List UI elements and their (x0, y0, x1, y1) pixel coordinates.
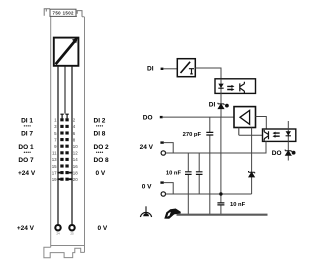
module mounting clip left (44, 9, 50, 16)
opto1 phototransistor (240, 82, 245, 93)
wire driver to opto2 (256, 117, 267, 130)
svg-text:DI 1: DI 1 (21, 117, 33, 124)
svg-text:19: 19 (52, 177, 57, 182)
svg-text:270 pF: 270 pF (183, 132, 202, 138)
0V bus square terminal (160, 181, 163, 183)
10 nF cap line 1 (187, 153, 189, 215)
24V bus square terminal (160, 141, 163, 143)
svg-text:DI 2: DI 2 (94, 117, 106, 124)
opto1 LED line through (220, 79, 222, 94)
opto1 light arrows (227, 86, 232, 89)
270 pF capacitor plates (206, 132, 213, 135)
header feed T right (65, 114, 68, 118)
filter box (debounce) (177, 59, 195, 77)
filter tau symbol (189, 69, 194, 74)
svg-text:0 V: 0 V (98, 225, 108, 232)
wire leg to opto2 base (239, 134, 263, 136)
svg-text:25: 25 (70, 232, 74, 236)
left terminal labels (18, 117, 36, 177)
pin header contacts (2 x 10) (60, 118, 68, 181)
pin numbers even (73, 118, 78, 182)
right terminal labels (94, 117, 110, 177)
wire right rail from converter (71, 66, 73, 225)
filter slash (181, 62, 191, 73)
svg-text:15: 15 (52, 164, 57, 169)
10 nF cap line 2 (198, 153, 200, 194)
wire mid from converter (64, 66, 66, 113)
24V square wire (164, 143, 173, 153)
svg-text:DO 8: DO 8 (94, 157, 110, 164)
wire left rail from converter (57, 66, 59, 225)
svg-text:24 V: 24 V (140, 144, 154, 151)
svg-text:20: 20 (73, 177, 78, 182)
24V rail (166, 141, 267, 153)
power jumper contact icon (164, 209, 180, 219)
header feed T left (60, 114, 63, 118)
DO status LED diode (285, 150, 291, 156)
driver left leg (238, 128, 240, 136)
svg-text:12: 12 (73, 151, 78, 156)
FE bus bar (177, 214, 268, 216)
module label plate (50, 9, 76, 16)
DC/DC converter box U1 (54, 38, 79, 66)
module mounting clip right (77, 11, 82, 17)
svg-text:10 nF: 10 nF (166, 170, 182, 176)
svg-text:10: 10 (73, 144, 78, 149)
pin numbers odd (52, 118, 57, 182)
pin 17/18 rail stubs (57, 172, 72, 174)
svg-text:DI 8: DI 8 (94, 131, 106, 138)
0V square wire (164, 183, 173, 194)
DI terminal square (161, 68, 164, 70)
svg-text:+24 V: +24 V (17, 225, 35, 232)
driver box U3 (234, 107, 256, 128)
terminal ring left (55, 225, 60, 230)
dots under DO 2 (96, 152, 103, 153)
terminal ring right (69, 225, 74, 230)
DC/DC isolation diagonal (56, 39, 77, 64)
svg-text:DI: DI (209, 102, 216, 109)
svg-text:DO 1: DO 1 (18, 144, 34, 151)
svg-text:DO 2: DO 2 (94, 144, 110, 151)
DO terminal square (160, 116, 163, 118)
svg-text:DO 7: DO 7 (18, 157, 34, 164)
driver triangle (240, 110, 250, 124)
wire DI to filter (163, 68, 177, 70)
svg-text:DO: DO (143, 114, 153, 121)
svg-text:0 V: 0 V (142, 184, 152, 191)
wire filter to opto1 (195, 68, 221, 79)
dots under DO 1 (24, 152, 31, 153)
dots under DI 2 (96, 125, 103, 126)
svg-text:10 nF: 10 nF (230, 202, 246, 208)
svg-text:+24 V: +24 V (18, 170, 36, 177)
pin 19/20 rail stubs (57, 178, 72, 180)
svg-text:16: 16 (73, 164, 78, 169)
module foot (44, 246, 85, 258)
opto2 LED line with stub above (287, 121, 289, 161)
svg-text:11: 11 (52, 151, 57, 156)
main tap line to FE (220, 117, 222, 215)
svg-text:0 V: 0 V (96, 170, 106, 177)
0V rail (166, 193, 252, 195)
junction dot at 0V rail (219, 192, 222, 195)
DI status LED diode (zener) on tap line (220, 94, 222, 117)
10 nF capacitor 2 plates (196, 172, 203, 175)
svg-text:24: 24 (56, 232, 60, 236)
0V field terminal circle (161, 192, 165, 196)
svg-text:14: 14 (73, 157, 78, 162)
10 nF capacitor (FE) plates (217, 203, 224, 205)
opto2 LED diode (286, 131, 291, 135)
opto2 light arrows (275, 133, 280, 136)
opto1 LED diode (218, 84, 223, 88)
rail clamp icon (FE) (145, 206, 147, 214)
svg-text:18: 18 (73, 170, 78, 175)
24V field terminal circle (161, 151, 165, 155)
optocoupler U4 box (output) (263, 129, 296, 141)
DO wire to driver (163, 116, 234, 118)
svg-text:DI: DI (147, 66, 154, 73)
DI status LED dot (225, 104, 229, 108)
module body outline (51, 16, 85, 252)
svg-text:DO: DO (272, 150, 282, 157)
optocoupler U2 box (215, 79, 256, 94)
svg-text:17: 17 (52, 170, 57, 175)
zener diode D1 (249, 171, 255, 177)
dots under DI 1 (24, 125, 31, 126)
driver right leg / zener line (251, 128, 253, 195)
svg-text:DI 7: DI 7 (21, 131, 33, 138)
svg-text:750 1502: 750 1502 (53, 11, 75, 16)
270 pF line (209, 117, 211, 215)
opto2 phototransistor (264, 130, 268, 141)
svg-text:13: 13 (52, 157, 57, 162)
DO status LED dot (292, 151, 296, 155)
10 nF capacitor 1 plates (185, 172, 192, 175)
